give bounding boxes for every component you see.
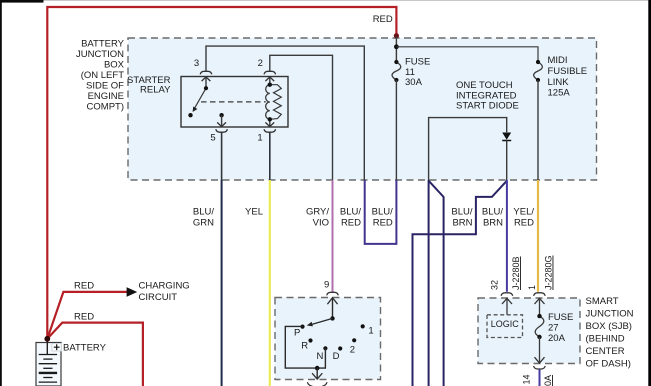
svg-text:SMART: SMART [586,296,619,307]
terminal 3 connector [200,71,212,81]
wire: SJB output [539,369,541,386]
fuse 11 [392,62,401,80]
terminal 1 connector [264,122,276,132]
relay coil vertical wire stubs [269,77,271,127]
wire: range switch output [316,368,318,379]
wire: fuse 11 feed [395,36,397,62]
node: battery junction [44,336,50,342]
node: output junction [315,366,320,371]
svg-text:YEL: YEL [245,206,263,217]
battery + terminal [52,343,61,351]
contact D [338,346,342,350]
wire: P loop to N [285,326,325,368]
relay switch wire from terminal 3 [205,77,207,88]
svg-text:1: 1 [527,285,537,290]
terminal 5 connector [216,122,228,132]
svg-text:J-2280A: J-2280A [543,375,553,386]
node: feed split to midi link [394,44,399,49]
svg-text:GRN: GRN [193,217,214,228]
relay switch arm [195,88,206,108]
svg-text:RED: RED [74,280,94,291]
svg-text:BOX (SJB): BOX (SJB) [586,321,632,332]
svg-text:OF DASH): OF DASH) [586,358,631,369]
svg-text:1: 1 [368,326,373,337]
svg-text:LINK: LINK [548,77,570,88]
svg-text:14: 14 [522,374,532,384]
svg-text:JUNCTION: JUNCTION [76,49,124,60]
svg-text:JUNCTION: JUNCTION [586,308,634,319]
battery [36,343,61,386]
contact R [308,338,312,342]
relay actuation dashed link [201,101,266,103]
starter relay label [127,75,171,96]
svg-text:SIDE OF: SIDE OF [86,81,124,92]
wire: relay terminal 2 to gry/vio leg [270,55,333,180]
relay coil shunt resistor [270,85,282,120]
svg-text:BLU/: BLU/ [193,206,214,217]
wire: terminal 32 to logic [506,298,508,315]
wire YEL [269,133,271,181]
wire: feed to midi fusible link [396,47,538,62]
svg-text:FUSIBLE: FUSIBLE [548,66,588,77]
wire BLU/GRN [221,133,223,181]
svg-text:(BEHIND: (BEHIND [586,333,625,344]
svg-text:CENTER: CENTER [586,346,625,357]
contact P [300,325,304,329]
svg-text:START DIODE: START DIODE [456,101,519,112]
wire: terminal 9 to pivot [332,298,334,319]
svg-text:5: 5 [210,133,215,144]
svg-text:GRY/: GRY/ [306,206,329,217]
svg-text:30A: 30A [405,77,423,88]
svg-text:BRN: BRN [452,217,472,228]
svg-text:RED: RED [341,217,361,228]
svg-text:32: 32 [490,280,500,290]
svg-text:BLU/: BLU/ [372,206,393,217]
logic box [487,315,523,338]
wire: midi link to box bottom [537,80,539,180]
svg-text:J-2280G: J-2280G [544,255,554,290]
svg-text:VIO: VIO [313,217,329,228]
svg-text:RED: RED [514,217,534,228]
svg-text:FUSE: FUSE [548,312,573,323]
svg-text:LOGIC: LOGIC [491,319,520,329]
fuse 27 [535,316,544,337]
range switch arm to P [311,318,333,324]
midi fusible link [534,62,543,80]
terminal 1 connector [534,293,546,304]
svg-text:J-2280B: J-2280B [511,256,521,290]
contact N [323,346,327,350]
svg-text:YEL/: YEL/ [513,206,534,217]
svg-text:2: 2 [258,58,263,69]
svg-text:RED: RED [373,217,393,228]
battery junction box (dashed) [128,38,597,180]
svg-text:BATTERY: BATTERY [81,39,125,50]
starter relay box [181,77,288,128]
wire: diode bridge [429,118,507,181]
smart junction box [478,298,580,364]
wire GRY/VIO [332,180,334,292]
relay terminal 5 wire [221,115,223,126]
charging circuit arrow [127,287,138,297]
svg-text:20A: 20A [548,333,566,344]
terminal 9 connector [327,292,339,304]
svg-text:RED: RED [74,311,94,322]
svg-text:BRN: BRN [483,217,503,228]
svg-text:P: P [294,327,300,338]
svg-text:BLU/: BLU/ [482,206,503,217]
svg-text:ONE TOUCH: ONE TOUCH [456,80,513,91]
output connector 14 [534,357,546,369]
wire: battery red feed (left vertical, top horizontal, drop to fuse row) [47,7,396,339]
svg-text:(ON LEFT: (ON LEFT [81,70,124,81]
battery junction box label [76,39,125,113]
wire BLU/BRN to SJB terminal 32 [506,180,508,292]
relay coil winding (inductor bumps) [266,85,270,120]
svg-text:RED: RED [373,14,393,25]
svg-text:3: 3 [194,58,199,69]
contact 1 [361,324,365,328]
wire: diode to box bottom [506,141,508,181]
terminal 2 connector [264,71,276,81]
relay contact dots [204,86,208,90]
svg-text:COMPT): COMPT) [87,102,124,113]
svg-text:RELAY: RELAY [140,84,171,95]
svg-text:CHARGING: CHARGING [139,281,190,292]
wire: red branch to charging circuit [47,292,127,339]
svg-text:D: D [333,351,340,362]
svg-text:BLU/: BLU/ [340,206,361,217]
wire BLU/RED loop (relay 3 to fuse 11) [365,180,397,244]
terminal 32 connector [501,293,513,304]
svg-text:1: 1 [257,133,262,144]
wire: relay terminal 3 to blu/red leg [206,46,364,180]
transmission range switch box [275,298,381,380]
wire: terminal 1 to fuse 27 [539,298,541,316]
output connector [307,373,327,386]
svg-text:CIRCUIT: CIRCUIT [139,292,178,303]
svg-text:BOX: BOX [104,60,125,71]
wire: fuse 11 to box bottom [395,80,397,180]
wire YEL/RED [537,180,539,292]
wire BLU/BRN from diode jog [413,181,507,386]
svg-text:N: N [316,351,323,362]
svg-text:BATTERY: BATTERY [63,342,107,353]
svg-text:27: 27 [548,323,559,334]
svg-text:BLU/: BLU/ [451,206,472,217]
wire BLU/BRN branch right [429,181,444,386]
svg-text:R: R [301,341,308,352]
page top hairline [0,0,651,1]
wire: fuse 27 to box bottom [539,337,541,363]
contact 2 [352,338,356,342]
svg-text:MIDI: MIDI [548,55,568,66]
svg-text:125A: 125A [548,88,571,99]
wire BLU/BRN straight [428,180,430,386]
svg-text:9: 9 [324,280,329,291]
svg-text:ENGINE: ENGINE [88,91,124,102]
wire: red branch lower right [47,323,143,386]
diode D1 [502,133,511,140]
svg-text:2: 2 [350,344,355,355]
junction dot red/fuse [394,33,399,38]
range switch pivot [330,316,334,320]
